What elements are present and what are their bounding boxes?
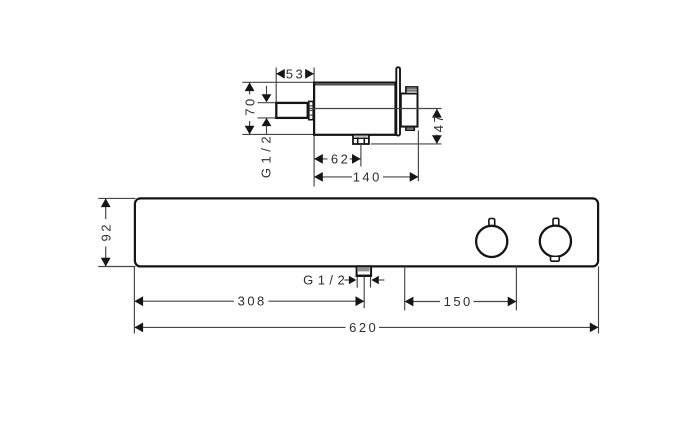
wall plate [396, 67, 400, 135]
body top inner line [314, 84, 395, 86]
dimension 140 [314, 169, 418, 184]
wire extension line 53-left above pipe [275, 68, 277, 103]
wire extension line 140 right [417, 130, 419, 181]
wire extension line front-left below body [133, 266, 135, 333]
connector bottom tab [406, 127, 414, 131]
svg-text:53: 53 [286, 66, 305, 81]
connector top threaded tab [406, 87, 418, 94]
wire extension line 150 left [404, 266, 406, 310]
knob circle 1 (thermostat) [476, 226, 507, 257]
svg-text:70: 70 [243, 96, 258, 115]
dimension 620 [134, 320, 598, 335]
wire extension line 150 right [515, 266, 517, 310]
svg-text:150: 150 [444, 294, 473, 309]
wire outlet centre extension (side) [360, 144, 362, 167]
svg-text:140: 140 [353, 169, 382, 184]
dimension 308 [134, 294, 364, 309]
wire outlet centre extension (front) [363, 276, 365, 308]
svg-text:308: 308 [238, 294, 267, 309]
pipe threaded end [309, 101, 313, 119]
wire extension line 47 bottom [371, 143, 442, 145]
knob 2 bottom tab [551, 257, 560, 261]
wire extension line front-right below body [598, 266, 600, 333]
label G1/2 with arrows (front view) [303, 272, 384, 287]
knob 2 top tab [553, 218, 559, 225]
wire extension line pipe top G1/2 [258, 102, 277, 104]
svg-text:620: 620 [349, 320, 378, 335]
connector block [401, 94, 418, 127]
dimension G1/2 pipe thread (side view) [259, 86, 274, 178]
outlet nut under body (side view) [353, 135, 369, 144]
front body panel [135, 198, 598, 266]
dimension 92 [98, 198, 135, 266]
svg-text:G1/2: G1/2 [259, 132, 274, 178]
outlet (front view) [356, 266, 372, 287]
knob circle 2 (volume control) [540, 226, 571, 257]
svg-text:92: 92 [99, 222, 114, 241]
pipe (wall supply connection) [276, 103, 307, 118]
knob 1 top tab [489, 219, 495, 226]
svg-text:G1/2: G1/2 [303, 272, 349, 287]
dimension 70 [243, 82, 258, 134]
dimension 53 [276, 66, 314, 81]
wire extension line top of 70 [242, 81, 314, 83]
center line (axis) [309, 108, 442, 110]
dimension 62 [314, 151, 361, 166]
dimension 150 [405, 294, 517, 309]
wire long vertical extension line at body left edge [313, 68, 315, 187]
svg-text:47: 47 [431, 113, 446, 132]
dimension 47 [431, 109, 446, 144]
wire extension line bottom of 70 [242, 133, 314, 135]
svg-text:62: 62 [331, 151, 350, 166]
main body (side view) [314, 83, 395, 135]
wire extension line pipe bottom G1/2 [258, 117, 277, 119]
